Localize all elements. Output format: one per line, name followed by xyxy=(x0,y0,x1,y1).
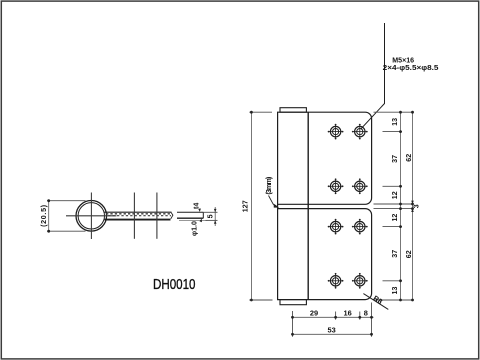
detail protrusion line xyxy=(179,219,208,221)
right extension y=300 xyxy=(374,299,414,301)
barrel left edge across gap xyxy=(277,204,279,208)
svg-text:13: 13 xyxy=(391,118,399,126)
detail right cap xyxy=(202,212,204,218)
bottom extension x=292.5 xyxy=(292,311,294,337)
svg-text:13: 13 xyxy=(391,287,399,295)
svg-text:(20.5): (20.5) xyxy=(40,204,48,227)
hole H2 r1c2 xyxy=(352,124,368,140)
leaf 2 barrel edge xyxy=(307,209,309,300)
svg-text:t4: t4 xyxy=(192,203,200,209)
dim 5 arrow top xyxy=(214,209,217,212)
hole centerline A xyxy=(133,193,135,239)
dim 5 extension top xyxy=(203,211,217,213)
corner radius callout line xyxy=(363,294,388,310)
t4 arrow xyxy=(198,209,201,212)
svg-text:φ1.0: φ1.0 xyxy=(191,221,199,236)
pin cap top xyxy=(280,108,306,113)
right extension y=280.8 xyxy=(383,280,403,282)
plate edge-on top line xyxy=(105,211,172,213)
bottom extension x=359.8 xyxy=(359,312,361,320)
right extension y=131.6 xyxy=(383,131,403,133)
bottom extension x=371.5 xyxy=(371,303,373,337)
gap leader arrow xyxy=(274,204,280,208)
right extension y=208.6 xyxy=(374,208,414,210)
dim (20.5) extension bottom xyxy=(47,230,86,232)
hole H5 r3c1 xyxy=(328,219,344,235)
dim line 53 xyxy=(293,333,372,335)
svg-text:12: 12 xyxy=(391,214,399,222)
leaf 1 (upper) outline xyxy=(278,112,372,204)
svg-text:127: 127 xyxy=(242,200,250,212)
barrel circle inner xyxy=(78,203,104,229)
svg-text:2×4-φ5.5×φ8.5: 2×4-φ5.5×φ8.5 xyxy=(383,63,439,72)
leaf 1 barrel edge xyxy=(307,112,309,204)
svg-text:12: 12 xyxy=(391,191,399,199)
dim line A x=400 xyxy=(400,112,402,300)
hole H7 r4c1 xyxy=(328,273,344,289)
phi1.0 arrow xyxy=(200,219,202,223)
svg-text:53: 53 xyxy=(327,326,335,335)
svg-text:16: 16 xyxy=(343,308,351,317)
pin cap bottom xyxy=(280,300,306,305)
svg-text:37: 37 xyxy=(391,155,399,163)
svg-text:(3mm): (3mm) xyxy=(265,176,273,195)
dim line 29/16/8 xyxy=(293,316,374,318)
dim 127 extension bottom xyxy=(249,299,272,301)
dim 5 arrow bottom xyxy=(214,220,217,223)
dim 3 arrows xyxy=(411,201,414,204)
right extension y=226.6 xyxy=(383,226,403,228)
svg-text:62: 62 xyxy=(405,154,413,162)
right extension y=112.2 xyxy=(374,111,414,113)
circle centerline horizontal xyxy=(66,215,117,217)
hole H8 r4c2 xyxy=(352,273,368,289)
svg-text:62: 62 xyxy=(405,250,413,258)
barrel right edge across gap xyxy=(307,204,309,208)
dim 127 extension top xyxy=(249,111,272,113)
svg-text:29: 29 xyxy=(310,308,318,317)
svg-text:DH0010: DH0010 xyxy=(153,277,196,293)
svg-text:5: 5 xyxy=(206,214,214,218)
dim 127 line xyxy=(250,112,252,300)
plate tip xyxy=(171,212,173,218)
dim 5 extension bottom xyxy=(206,219,218,221)
screw note leader xyxy=(361,23,385,129)
dim (20.5) extension top xyxy=(47,200,86,202)
dim line B x=412 xyxy=(412,112,414,300)
plate hatch row 2 xyxy=(106,215,171,217)
detail bottom line xyxy=(177,217,203,219)
svg-text:3: 3 xyxy=(413,204,421,208)
hole H4 r2c2 xyxy=(352,178,368,194)
bottom extension x=335.6 xyxy=(335,312,337,320)
hole H3 r2c1 xyxy=(328,178,344,194)
svg-text:R8: R8 xyxy=(372,294,384,306)
plate edge-on bottom line xyxy=(105,219,171,221)
hole H1 r1c1 xyxy=(328,124,344,140)
right extension y=186.3 xyxy=(383,185,403,187)
leaf 2 (lower) outline xyxy=(278,209,372,300)
plate hatch row 1 xyxy=(106,213,171,215)
svg-text:37: 37 xyxy=(391,250,399,258)
detail top line xyxy=(177,211,203,213)
barrel circle outer xyxy=(76,201,107,232)
svg-text:8: 8 xyxy=(364,308,368,317)
dim (20.5) line xyxy=(48,201,50,232)
hole centerline B xyxy=(156,193,158,239)
circle centerline vertical xyxy=(90,193,92,240)
hole H6 r3c2 xyxy=(352,219,368,235)
gap leader xyxy=(269,196,277,207)
right extension y=204 xyxy=(374,203,414,205)
dim 5 line xyxy=(214,207,216,226)
